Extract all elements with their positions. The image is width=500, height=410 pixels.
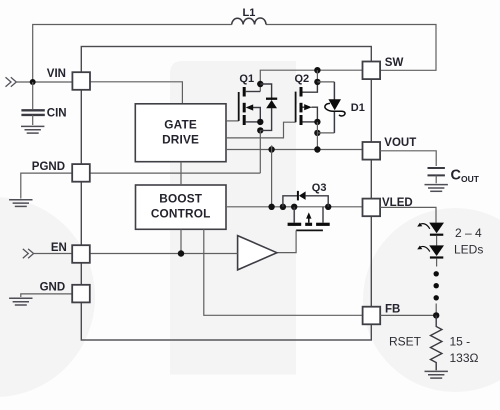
ground at RSET — [425, 371, 448, 378]
wire FB pin to LED chain — [380, 314, 436, 316]
svg-text:Q1: Q1 — [239, 73, 254, 85]
capacitor CIN — [21, 110, 44, 115]
wire Q2 source column down to VOUT line — [316, 122, 318, 150]
wire VLED pin to LED chain — [380, 207, 436, 222]
block BOOST CONTROL — [136, 185, 227, 229]
op-amp U1 — [238, 236, 277, 270]
node Q1 source to body diode junction — [257, 127, 263, 133]
node Q2 source to D1 junction — [314, 130, 320, 136]
transistor Q2 — [296, 82, 318, 125]
wire internal SW rail — [260, 70, 362, 91]
wire GATE DRIVE to BOOST CONTROL — [180, 162, 182, 185]
node Q1 source junction — [257, 119, 263, 125]
wire COUT to ground — [435, 175, 437, 183]
wire L1 top loop from VIN node to SW — [33, 25, 436, 83]
ground at COUT — [425, 185, 448, 192]
input connector chevron at VIN — [6, 77, 17, 86]
wire VIN pin to GATE DRIVE top — [90, 82, 182, 104]
node Q3 diode cathode branch — [280, 204, 286, 210]
node VIN input junction — [30, 79, 36, 85]
wire PGND pin to ground — [21, 173, 73, 198]
node EN line junction — [178, 250, 184, 256]
pin EN — [72, 245, 90, 263]
wire Q2 source to D1 cathode — [317, 132, 334, 134]
node Q2 source junction — [314, 119, 320, 125]
LED D3 bottom — [417, 245, 444, 257]
pin VIN — [72, 72, 90, 90]
wire EN pin to op-amp input — [90, 253, 238, 255]
input connector chevron at EN — [23, 249, 34, 258]
wire GND pin to ground — [21, 294, 72, 297]
node ellipsis dots — [434, 271, 439, 300]
wire GATE DRIVE to Q2 gate staircase — [226, 122, 296, 138]
wire input to VIN pin — [16, 81, 72, 83]
pin SW — [363, 62, 381, 80]
node Q2 drain junction — [314, 79, 320, 85]
wire BOOST CONTROL to FB line — [204, 229, 363, 315]
ground at GND — [9, 298, 32, 305]
svg-text:D1: D1 — [351, 102, 365, 114]
svg-text:SW: SW — [385, 57, 404, 69]
ground below CIN — [21, 126, 44, 133]
pin VOUT — [363, 142, 381, 160]
svg-text:VIN: VIN — [47, 68, 66, 80]
IC outline — [81, 47, 371, 341]
pin FB — [363, 307, 381, 325]
wire ellipsis to FB node — [435, 304, 437, 316]
node Q3 line mid column — [268, 204, 274, 210]
svg-text:EN: EN — [51, 242, 67, 254]
ground at PGND — [9, 200, 32, 207]
wire op-amp output to Q3 gate — [277, 230, 296, 252]
block GATE DRIVE — [135, 104, 226, 162]
wire GATE DRIVE to Q1 gate — [226, 120, 239, 122]
wire LED2 to ellipsis — [436, 259, 438, 267]
svg-text:RSET: RSET — [389, 335, 422, 349]
node VOUT line to mid column — [268, 146, 274, 152]
pin VLED — [363, 199, 381, 217]
svg-text:LEDs: LEDs — [454, 243, 483, 257]
wire Q2 drain to D1 anode — [317, 81, 334, 83]
svg-text:FB: FB — [385, 304, 400, 316]
LED D2 top — [417, 223, 444, 235]
svg-text:DRIVE: DRIVE — [162, 132, 199, 146]
svg-text:VOUT: VOUT — [384, 137, 416, 149]
node VOUT line to Q2 source — [314, 146, 320, 152]
svg-text:Q2: Q2 — [295, 73, 310, 85]
body diode of Q3 — [283, 191, 328, 207]
node FB junction — [433, 312, 439, 318]
wire VOUT line — [226, 149, 363, 151]
svg-text:BOOST: BOOST — [159, 192, 203, 206]
svg-text:GATE: GATE — [164, 118, 197, 132]
pin GND — [72, 285, 90, 303]
diode D1 — [325, 82, 345, 133]
wire mid column VOUT line to Q3 node — [271, 145, 273, 206]
resistor RSET — [431, 315, 442, 370]
node Q1 drain junction — [257, 81, 263, 87]
node Q3 diode anode and right contact — [325, 204, 331, 210]
node rail to Q2 drain — [314, 67, 320, 73]
pin PGND — [72, 164, 90, 182]
wire between LEDs — [436, 236, 438, 246]
svg-text:Q3: Q3 — [312, 182, 327, 194]
svg-text:PGND: PGND — [32, 161, 65, 173]
wire VIN node down to CIN — [32, 82, 34, 109]
wire EN input to pin — [34, 253, 73, 255]
transistor Q1 — [239, 87, 261, 125]
svg-text:CONTROL: CONTROL — [151, 207, 211, 221]
wire Q1 source to PGND — [90, 130, 260, 173]
wire BOOST CONTROL down to EN line — [180, 229, 182, 253]
svg-text:133Ω: 133Ω — [450, 351, 479, 365]
node Q3 left contact — [291, 204, 297, 210]
svg-text:L1: L1 — [243, 7, 256, 19]
body diode of Q1 — [260, 84, 277, 130]
capacitor COUT — [428, 168, 445, 175]
wire CIN to ground — [32, 115, 34, 125]
wire Q3 node line BOOST CONTROL to VLED — [226, 206, 363, 208]
svg-text:15 -: 15 - — [450, 335, 471, 349]
svg-text:CIN: CIN — [47, 108, 67, 120]
inductor L1 — [232, 18, 266, 25]
svg-text:2 – 4: 2 – 4 — [455, 226, 482, 240]
wire Q2 drain column to rail — [316, 70, 318, 82]
wire VOUT pin to COUT — [380, 151, 436, 166]
svg-text:GND: GND — [40, 282, 66, 294]
transistor Q3 — [288, 207, 330, 231]
